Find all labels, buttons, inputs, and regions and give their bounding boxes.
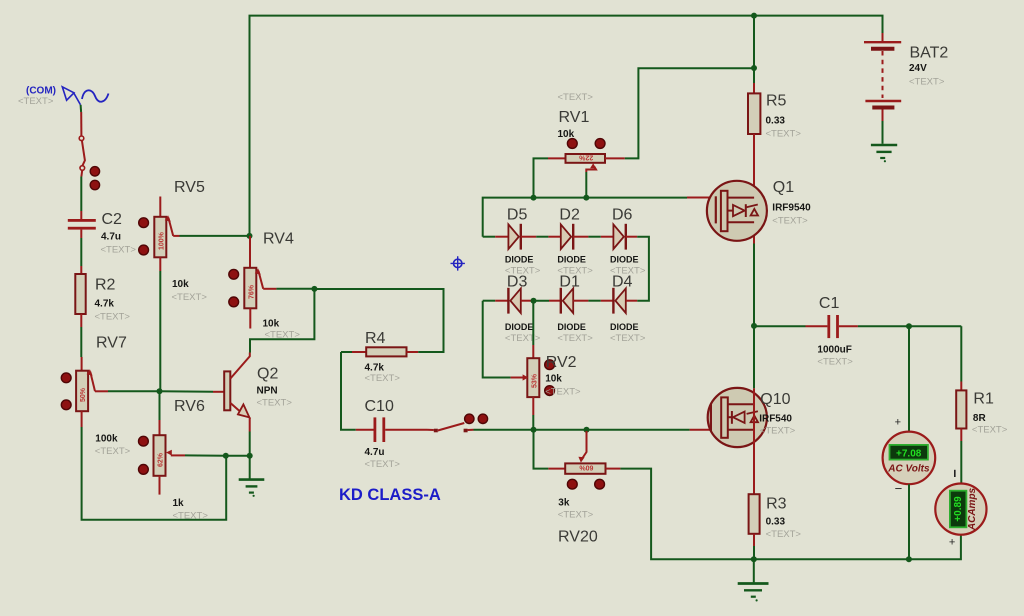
svg-text:DIODE: DIODE	[505, 322, 534, 332]
svg-text:4.7k: 4.7k	[95, 299, 115, 310]
svg-text:<TEXT>: <TEXT>	[18, 96, 54, 107]
svg-text:RV6: RV6	[174, 398, 205, 415]
svg-text:R3: R3	[766, 496, 787, 513]
ground below Q2	[239, 480, 265, 497]
transistor Q1 IRF9540	[687, 179, 811, 241]
wire Q1 source to output node	[753, 244, 755, 326]
ground battery	[871, 145, 897, 162]
wire R4 left down to C10	[341, 352, 356, 430]
wire C2 to R2	[80, 238, 82, 266]
battery BAT2	[864, 33, 948, 121]
svg-text:<TEXT>: <TEXT>	[557, 333, 593, 344]
svg-text:4.7k: 4.7k	[365, 363, 385, 374]
svg-text:D1: D1	[559, 274, 580, 291]
wire RV1 right to rail	[625, 68, 754, 158]
svg-text:<TEXT>: <TEXT>	[95, 446, 131, 457]
svg-text:DIODE: DIODE	[557, 255, 586, 265]
svg-text:KD CLASS-A: KD CLASS-A	[339, 486, 441, 504]
svg-text:4.7u: 4.7u	[365, 447, 385, 458]
svg-text:1000uF: 1000uF	[817, 345, 851, 356]
capacitor C1	[806, 295, 858, 368]
wire RV4 wiper over to R4 column	[250, 289, 314, 353]
svg-text:NPN: NPN	[257, 386, 278, 397]
svg-text:DIODE: DIODE	[557, 322, 586, 332]
junction bias line / RV20 wiper	[584, 427, 590, 433]
svg-text:AC Volts: AC Volts	[887, 463, 930, 474]
svg-text:<TEXT>: <TEXT>	[365, 459, 401, 470]
svg-text:RV5: RV5	[174, 179, 205, 196]
voltmeter AC Volts	[883, 417, 936, 496]
junction output node / C1	[751, 323, 757, 329]
junction base node	[157, 388, 163, 394]
wire output node to C1	[754, 325, 806, 327]
svg-text:10k: 10k	[172, 279, 189, 290]
wire diode bus top	[483, 198, 687, 237]
wire RV20 left to bias junction	[534, 430, 549, 469]
svg-text:D5: D5	[507, 207, 528, 224]
wire R3 to bottom rail	[753, 546, 755, 559]
node marker dot switch b	[478, 414, 487, 423]
svg-text:<TEXT>: <TEXT>	[173, 511, 209, 522]
transistor Q10 IRF540	[690, 388, 796, 450]
svg-text:<TEXT>: <TEXT>	[766, 529, 802, 540]
wire ground stub output	[753, 559, 755, 582]
wire RV7 bottom loop	[82, 427, 227, 520]
svg-text:76%: 76%	[248, 284, 255, 299]
wire D2-D6	[588, 236, 600, 238]
junction top bus / RV1 left	[531, 195, 537, 201]
svg-text:53%: 53%	[531, 373, 538, 388]
wire D1-D4	[588, 300, 600, 302]
svg-text:3k: 3k	[558, 498, 570, 509]
svg-text:Q1: Q1	[773, 179, 794, 196]
junction R5 column / RV1 feed	[751, 65, 757, 71]
switch input SW	[79, 112, 85, 177]
svg-text:Q10: Q10	[760, 391, 790, 408]
svg-text:+: +	[895, 417, 901, 429]
svg-text:100%: 100%	[158, 231, 165, 250]
svg-text:<TEXT>: <TEXT>	[257, 398, 293, 409]
resistor R4	[341, 330, 418, 384]
svg-text:<TEXT>: <TEXT>	[610, 333, 646, 344]
svg-text:DIODE: DIODE	[505, 255, 534, 265]
origin marker	[451, 256, 465, 270]
svg-text:<TEXT>: <TEXT>	[558, 510, 594, 521]
svg-text:<TEXT>: <TEXT>	[766, 129, 802, 140]
svg-text:100k: 100k	[95, 434, 118, 445]
diode D4	[601, 274, 646, 345]
junction RV5 wiper / RV4	[247, 233, 253, 239]
wire Q2 emitter down	[249, 432, 251, 456]
svg-text:D6: D6	[612, 207, 633, 224]
svg-text:RV2: RV2	[546, 354, 577, 371]
capacitor C2	[68, 211, 137, 256]
svg-text:−: −	[895, 481, 903, 496]
junction emitter node right	[247, 453, 253, 459]
svg-text:RV1: RV1	[559, 109, 590, 126]
junction diode row2 / RV2 top	[531, 298, 537, 304]
svg-text:BAT2: BAT2	[910, 45, 949, 62]
wire top supply rail	[250, 16, 883, 236]
svg-text:<TEXT>: <TEXT>	[505, 333, 541, 344]
wire battery to ground	[882, 121, 884, 144]
svg-text:10k: 10k	[545, 374, 562, 385]
svg-text:10k: 10k	[263, 319, 280, 330]
svg-text:4.7u: 4.7u	[101, 232, 121, 243]
resistor R5	[748, 83, 801, 140]
svg-text:22%: 22%	[578, 153, 593, 160]
diode D2	[548, 207, 593, 277]
wire R5 column upper	[753, 16, 755, 83]
svg-text:<TEXT>: <TEXT>	[817, 357, 853, 368]
potentiometer RV7	[61, 335, 130, 458]
wire voltmeter top	[908, 326, 910, 431]
svg-text:DIODE: DIODE	[610, 322, 639, 332]
svg-text:C2: C2	[102, 211, 123, 228]
svg-text:10k: 10k	[558, 129, 575, 140]
svg-text:C1: C1	[819, 295, 840, 312]
svg-text:D3: D3	[507, 274, 528, 291]
svg-text:D4: D4	[612, 274, 633, 291]
svg-text:IRF9540: IRF9540	[772, 203, 811, 214]
svg-text:+0.89: +0.89	[953, 496, 964, 522]
potentiometer RV1	[548, 92, 625, 172]
ammeter AC Amps	[935, 470, 986, 549]
svg-text:<TEXT>: <TEXT>	[545, 387, 581, 398]
wire voltmeter bottom	[908, 484, 910, 559]
wire emitter node	[226, 455, 250, 457]
diode D3	[483, 274, 541, 345]
wire RV7 wiper to base node	[108, 390, 160, 392]
capacitor C10	[356, 398, 427, 470]
wire D6 to D4 right loop	[637, 237, 649, 301]
svg-text:RV4: RV4	[263, 231, 294, 248]
junction C1 / voltmeter	[906, 323, 912, 329]
svg-text:+7.08: +7.08	[896, 449, 922, 460]
wire bottom rail	[754, 535, 961, 559]
resistor R3	[749, 450, 802, 546]
wire to ground Q2	[249, 456, 251, 479]
wire RV1 left leg	[534, 158, 549, 197]
potentiometer RV5	[139, 179, 208, 303]
svg-text:R5: R5	[766, 93, 787, 110]
junction emitter node left	[223, 453, 229, 459]
ground output	[738, 584, 769, 602]
svg-text:R1: R1	[973, 391, 994, 408]
junction top rail / R5 column	[751, 13, 757, 19]
wire RV6 wiper to emitter node	[185, 454, 226, 456]
switch SW2	[427, 423, 474, 432]
svg-text:<TEXT>: <TEXT>	[365, 373, 401, 384]
diode D5	[483, 207, 541, 277]
wire RV20 right to bottom rail	[620, 469, 753, 560]
potentiometer RV20	[548, 431, 620, 546]
svg-text:60%: 60%	[579, 464, 594, 471]
svg-text:<TEXT>: <TEXT>	[172, 292, 208, 303]
svg-text:RV20: RV20	[558, 529, 598, 546]
wire to R1 down	[960, 326, 962, 381]
junction bottom rail / voltmeter	[906, 556, 912, 562]
generator (COM) input	[18, 86, 109, 108]
wire RV5 down to base node	[159, 271, 161, 391]
svg-text:R2: R2	[95, 277, 116, 294]
wire main bias line	[474, 429, 690, 431]
svg-text:1k: 1k	[173, 498, 185, 509]
junction bottom rail / R3 ground	[751, 556, 757, 562]
wire RV5 wiper to rail column	[180, 235, 250, 237]
node marker dot switch a	[465, 414, 474, 423]
resistor R2	[75, 266, 130, 327]
wire R5 to Q1 drain	[753, 134, 755, 244]
junction bias line / RV2	[531, 427, 537, 433]
wire R2 to RV7	[80, 327, 82, 357]
wire RV1 wiper leg	[585, 172, 587, 198]
svg-text:DIODE: DIODE	[610, 255, 639, 265]
wire output node down to Q10	[753, 326, 755, 388]
diode D1	[549, 274, 593, 345]
resistor R1	[956, 382, 1008, 442]
potentiometer RV2	[511, 301, 581, 415]
wire diode row2 to RV2 wiper	[483, 301, 511, 378]
potentiometer RV4	[229, 231, 301, 341]
wire D5-D2	[536, 236, 548, 238]
svg-text:62%: 62%	[158, 452, 165, 467]
junction top bus / RV1 wiper	[583, 195, 589, 201]
svg-text:RV7: RV7	[96, 335, 127, 352]
svg-text:0.33: 0.33	[766, 517, 786, 528]
wire R4 right up to RV4 wiper node	[314, 289, 443, 352]
junction RV4 wiper node	[311, 286, 317, 292]
wire input top	[80, 105, 83, 112]
svg-text:0.33: 0.33	[766, 116, 786, 127]
svg-text:<TEXT>: <TEXT>	[558, 92, 594, 103]
svg-text:<TEXT>: <TEXT>	[772, 216, 808, 227]
svg-text:Q2: Q2	[257, 366, 278, 383]
potentiometer RV6	[139, 391, 209, 521]
svg-text:<TEXT>: <TEXT>	[909, 77, 945, 88]
svg-text:<TEXT>: <TEXT>	[760, 426, 796, 437]
wire input to C2	[80, 177, 82, 212]
wire D3-D1	[532, 300, 550, 302]
svg-text:R4: R4	[365, 330, 386, 347]
wire C1 right to R1 / voltmeter	[858, 325, 961, 327]
svg-text:D2: D2	[559, 207, 580, 224]
node marker dot input b	[90, 180, 99, 189]
svg-text:+: +	[949, 537, 955, 549]
svg-text:50%: 50%	[80, 387, 87, 402]
transistor Q2 NPN	[160, 353, 293, 432]
svg-text:24V: 24V	[909, 63, 927, 74]
svg-text:<TEXT>: <TEXT>	[95, 312, 131, 323]
svg-text:IRF540: IRF540	[759, 414, 792, 425]
svg-text:C10: C10	[365, 398, 394, 415]
svg-text:<TEXT>: <TEXT>	[972, 425, 1008, 436]
wire RV2 bottom to bias line	[532, 415, 534, 430]
svg-text:8R: 8R	[973, 413, 987, 424]
diode D6	[601, 207, 646, 277]
svg-text:<TEXT>: <TEXT>	[101, 245, 137, 256]
node marker dot input a	[90, 167, 99, 176]
svg-text:ACAmps: ACAmps	[967, 487, 978, 531]
wire R1 to ammeter	[960, 441, 962, 484]
svg-text:(COM): (COM)	[26, 86, 56, 97]
